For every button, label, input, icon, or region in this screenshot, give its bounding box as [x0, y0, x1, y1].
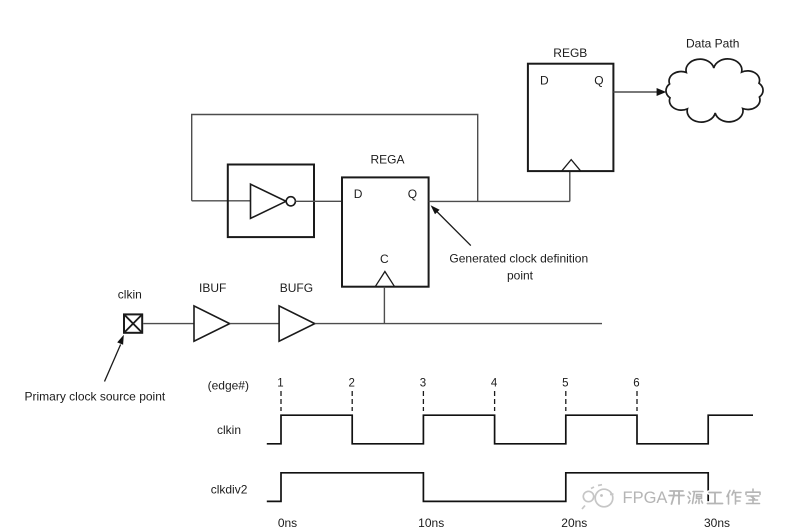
inverter triangle — [251, 184, 287, 218]
svg-text:point: point — [507, 269, 534, 283]
edge dashed line 5 — [565, 391, 567, 411]
svg-text:30ns: 30ns — [704, 516, 730, 530]
glyph yuan — [688, 492, 703, 504]
svg-text:C: C — [380, 252, 389, 266]
REGA clock triangle — [375, 272, 394, 287]
svg-text:0ns: 0ns — [278, 516, 297, 530]
svg-text:REGA: REGA — [371, 152, 405, 166]
wire branch up to REGA clock — [383, 287, 385, 324]
watermark logo panda — [582, 485, 614, 509]
wire clkin to IBUF — [143, 323, 194, 325]
edge dashed line 4 — [494, 391, 496, 411]
svg-text:Q: Q — [408, 187, 417, 201]
wire REGB Q to cloud — [613, 91, 658, 93]
glyph gong — [708, 493, 723, 504]
glyph kai — [669, 491, 684, 504]
svg-text:Q: Q — [594, 73, 603, 87]
svg-text:clkin: clkin — [217, 423, 241, 437]
svg-text:Data Path: Data Path — [686, 37, 739, 51]
buffer IBUF — [194, 306, 230, 341]
glyph shi — [746, 489, 760, 504]
svg-text:IBUF: IBUF — [199, 281, 226, 295]
svg-text:D: D — [540, 73, 549, 87]
wire up to REGB clock — [569, 171, 571, 201]
flip-flop REGA — [342, 177, 429, 286]
glyph zuo — [727, 491, 741, 505]
svg-text:BUFG: BUFG — [280, 281, 313, 295]
clkin waveform — [267, 415, 753, 444]
svg-text:10ns: 10ns — [418, 516, 444, 530]
svg-text:4: 4 — [491, 378, 498, 390]
svg-text:1: 1 — [277, 378, 283, 390]
edge dashed line 1 — [280, 391, 282, 411]
wire IBUF to BUFG — [230, 323, 279, 325]
svg-text:6: 6 — [633, 378, 639, 390]
inverter box — [228, 165, 314, 238]
watermark CJK glyphs — [669, 489, 760, 504]
clkin pad box — [124, 314, 142, 332]
svg-text:clkin: clkin — [118, 287, 142, 301]
svg-text:5: 5 — [562, 378, 568, 390]
cloud Data Path — [666, 59, 763, 122]
clkdiv2 waveform — [267, 473, 708, 502]
svg-text:(edge#): (edge#) — [208, 379, 249, 393]
REGB clock triangle — [562, 160, 581, 172]
arrow primary clock source point — [105, 345, 121, 382]
edge dashed line 6 — [636, 391, 638, 411]
arrow generated clock definition point — [436, 211, 471, 246]
wire BUFG to right — [315, 323, 602, 325]
buffer BUFG — [279, 306, 315, 341]
arrowhead into cloud — [657, 88, 667, 96]
wire feedback into inverter — [192, 200, 251, 202]
inverter bubble — [286, 197, 295, 206]
svg-text:2: 2 — [348, 378, 354, 390]
flip-flop REGB — [528, 64, 614, 171]
feedback loop top rail wire — [192, 115, 478, 202]
edge dashed line 2 — [351, 391, 353, 411]
svg-text:Primary clock source point: Primary clock source point — [25, 389, 166, 403]
svg-text:FPGA: FPGA — [623, 489, 668, 507]
wire REGA Q output — [429, 200, 570, 202]
edge dashed line 3 — [422, 391, 424, 411]
svg-text:D: D — [354, 187, 363, 201]
svg-text:Generated clock definition: Generated clock definition — [449, 252, 588, 266]
svg-text:20ns: 20ns — [561, 516, 587, 530]
clkin pad X — [124, 314, 142, 332]
wire inverter output to REGA D — [295, 200, 342, 202]
svg-text:3: 3 — [420, 378, 426, 390]
svg-text:clkdiv2: clkdiv2 — [211, 482, 248, 496]
svg-text:REGB: REGB — [553, 46, 587, 60]
